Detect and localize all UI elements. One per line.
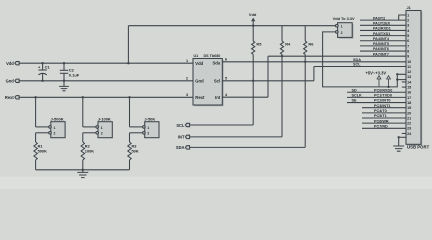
wire row PA5/INT5 [360,42,406,46]
svg-text:22: 22 [407,122,411,126]
svg-text:J-100K: J-100K [98,116,111,121]
svg-text:PA2/RXD1: PA2/RXD1 [373,27,391,31]
resistor R5 [252,26,263,125]
port INT [178,135,190,140]
wire SCL row [314,66,406,68]
node feed p12 [396,73,398,75]
svg-text:SD: SD [352,88,358,92]
svg-text:2: 2 [341,31,343,35]
wire row PC3/INT1 [362,104,406,108]
svg-text:Vdd To 3.3V: Vdd To 3.3V [333,16,355,21]
svg-text:500K: 500K [38,148,47,153]
power arrow A [377,76,381,87]
svg-text:PA1/T2EX: PA1/T2EX [373,22,391,26]
svg-text:Rext: Rext [5,95,15,100]
wire row PA1/T2EX [360,22,406,26]
jumper J-500K [36,97,66,137]
resistor R3 [128,133,139,170]
resistor R1 [34,133,47,170]
wire row SD PC0/RXD0 [347,88,406,92]
svg-text:2: 2 [54,132,56,136]
page strip bottom [0,177,432,190]
svg-text:Int: Int [215,95,221,100]
resistor R4 [280,26,291,137]
wire riser to top Vdd rail [127,26,129,64]
node Vdd rail R5 [252,25,254,27]
svg-text:SDA: SDA [353,58,361,62]
svg-text:J-50K: J-50K [144,116,155,121]
wire row PC5/T1 [362,114,406,118]
svg-text:2: 2 [407,19,409,23]
svg-text:PA4/INT4: PA4/INT4 [373,37,390,41]
svg-text:7: 7 [407,44,409,48]
svg-text:R4: R4 [285,42,291,47]
node C1-Vdd [41,62,43,64]
svg-text:PC2/INT0: PC2/INT0 [374,99,390,103]
wire SDA row [222,61,406,63]
svg-text:0.1uF: 0.1uF [69,72,80,77]
ground J1 [393,137,404,151]
svg-text:18: 18 [407,101,411,105]
wire row PA3/TXD1 [360,32,406,36]
svg-text:PA0/T2: PA0/T2 [373,16,385,20]
wire INT port [190,136,282,138]
svg-text:15: 15 [407,86,411,90]
node R6-SDA [304,61,306,63]
svg-text:SDA: SDA [176,145,185,150]
wire Rext rail [19,96,193,98]
svg-text:Scl: Scl [214,79,220,84]
svg-text:Gnd: Gnd [6,79,15,84]
wire row SE PC2/INT0 [347,99,406,103]
svg-text:1: 1 [186,59,188,63]
svg-text:Vdd: Vdd [195,61,203,66]
wire row PC6/WR [362,119,406,123]
svg-text:PC3/INT1: PC3/INT1 [374,104,390,108]
svg-text:9: 9 [407,55,409,59]
svg-text:Sda: Sda [213,60,221,65]
node riser-Vdd [127,62,129,64]
capacitor C2 [60,63,80,81]
regulator block Vdd To 3.3V [333,16,355,39]
svg-text:50K: 50K [132,148,139,153]
wire 3.3V stub p13 [397,79,406,81]
background canvas [0,0,432,177]
node J2-Rext [82,96,84,98]
power arrow B [387,76,391,87]
jumper J-100K [83,97,113,137]
wire 3.3V feed [323,32,406,87]
svg-text:12: 12 [407,70,411,74]
svg-text:3: 3 [186,93,188,97]
svg-text:DS Tb680: DS Tb680 [204,54,221,58]
node R5-SCL [252,80,254,82]
wire INT from chip [222,96,268,98]
wire Vdd rail [19,62,193,64]
jumper J-50K [130,97,160,137]
node C2-Gnd [63,80,65,82]
svg-text:6: 6 [225,58,227,62]
svg-text:U1: U1 [194,54,199,58]
svg-text:PC6/WR: PC6/WR [374,119,389,123]
port Rext [5,95,19,100]
svg-text:2: 2 [186,77,188,81]
svg-text:R6: R6 [308,42,314,47]
node C1-Gnd [41,80,43,82]
svg-text:2: 2 [147,132,149,136]
wire row PA0/T2 [360,16,406,20]
ground under C2 [59,81,69,91]
svg-text:3: 3 [407,24,409,28]
svg-text:PA6/INT6: PA6/INT6 [373,47,389,51]
svg-text:11: 11 [407,65,411,69]
wire row PC7/RD [362,125,406,129]
wire bottom gnd rail [36,169,130,171]
node arrowB feed [387,86,389,88]
svg-text:J-500K: J-500K [51,116,64,121]
wire top Vdd rail [128,25,335,27]
svg-text:10: 10 [407,60,411,64]
port SCL [176,123,189,128]
IC U1 body [193,54,224,106]
stub p24 [402,132,406,134]
node R4-INT [281,55,283,57]
resistor R2 [81,133,94,170]
svg-text:PC5/T1: PC5/T1 [374,114,387,118]
svg-text:8: 8 [407,50,409,54]
wire J1 pin1 jog [399,15,406,20]
svg-text:17: 17 [407,96,411,100]
port Vdd [6,61,19,66]
node gnd J1 [398,136,400,138]
wire gnd stub J1 [399,136,406,138]
resistor R6 [304,26,315,148]
ground bottom [77,170,88,178]
svg-text:100K: 100K [85,148,94,153]
svg-text:Gnd: Gnd [195,78,204,83]
power Vdd symbol top [249,12,257,26]
stub p15 [402,86,406,88]
node R2-gndrail [82,169,84,171]
svg-text:Rext: Rext [195,95,205,100]
svg-text:1: 1 [407,13,409,17]
svg-text:Vdd: Vdd [249,12,257,17]
svg-text:PA5/INT5: PA5/INT5 [373,42,389,46]
svg-text:SCL: SCL [176,123,185,128]
svg-text:INT: INT [178,135,185,140]
svg-text:PA7/INT7: PA7/INT7 [373,52,389,56]
svg-text:5: 5 [407,34,409,38]
svg-text:16: 16 [407,91,411,95]
wire INT row [268,55,406,57]
node C2-Vdd [63,62,65,64]
svg-text:23: 23 [407,127,411,131]
svg-text:5: 5 [225,77,227,81]
svg-text:6: 6 [407,39,409,43]
port Gnd [6,79,19,84]
capacitor C1 [38,63,50,81]
svg-text:1: 1 [147,126,149,130]
svg-text:PC7/RD: PC7/RD [374,125,388,129]
svg-text:19: 19 [407,106,411,110]
node J1-Rext [34,96,36,98]
wire row SCLK PC1/TXD0 [347,94,406,98]
node J3-Rext [128,96,130,98]
svg-text:R5: R5 [256,42,262,47]
svg-text:PA3/TXD1: PA3/TXD1 [373,32,390,36]
wire row PC4/T0 [362,109,406,113]
wire row PA4/INT4 [360,37,406,41]
wire SCL port [190,124,253,126]
svg-text:21: 21 [407,116,411,120]
wire row PA2/RXD1 [360,27,406,31]
svg-text:13: 13 [407,75,411,79]
connector J1 body [406,5,422,146]
port SDA [176,145,190,150]
svg-text:+5V~+3.3V: +5V~+3.3V [366,70,387,75]
svg-text:PC4/T0: PC4/T0 [374,109,387,113]
svg-text:Vdd: Vdd [6,61,14,66]
svg-text:1: 1 [54,126,56,130]
wire SDA port [190,146,305,148]
wire SCL from chip [222,80,314,82]
svg-text:1: 1 [101,126,103,130]
stub p14 [402,81,406,83]
svg-text:2: 2 [101,132,103,136]
svg-text:SE: SE [352,99,358,103]
svg-text:SCL: SCL [353,63,361,67]
wire INT riser [267,56,269,97]
svg-text:PC0/RXD0: PC0/RXD0 [374,88,392,92]
svg-text:1: 1 [341,25,343,29]
wire SCL riser [313,67,315,81]
wire row PA6/INT6 [360,47,406,51]
svg-text:USB PORT: USB PORT [407,144,430,149]
svg-text:SCLK: SCLK [352,94,363,98]
J1 pin numbers [407,13,412,135]
node feed p13 [396,78,398,80]
svg-text:PC1/TXD0: PC1/TXD0 [374,94,392,98]
svg-text:20: 20 [407,111,411,115]
wire Gnd rail [19,80,193,82]
svg-text:C1: C1 [45,64,51,69]
